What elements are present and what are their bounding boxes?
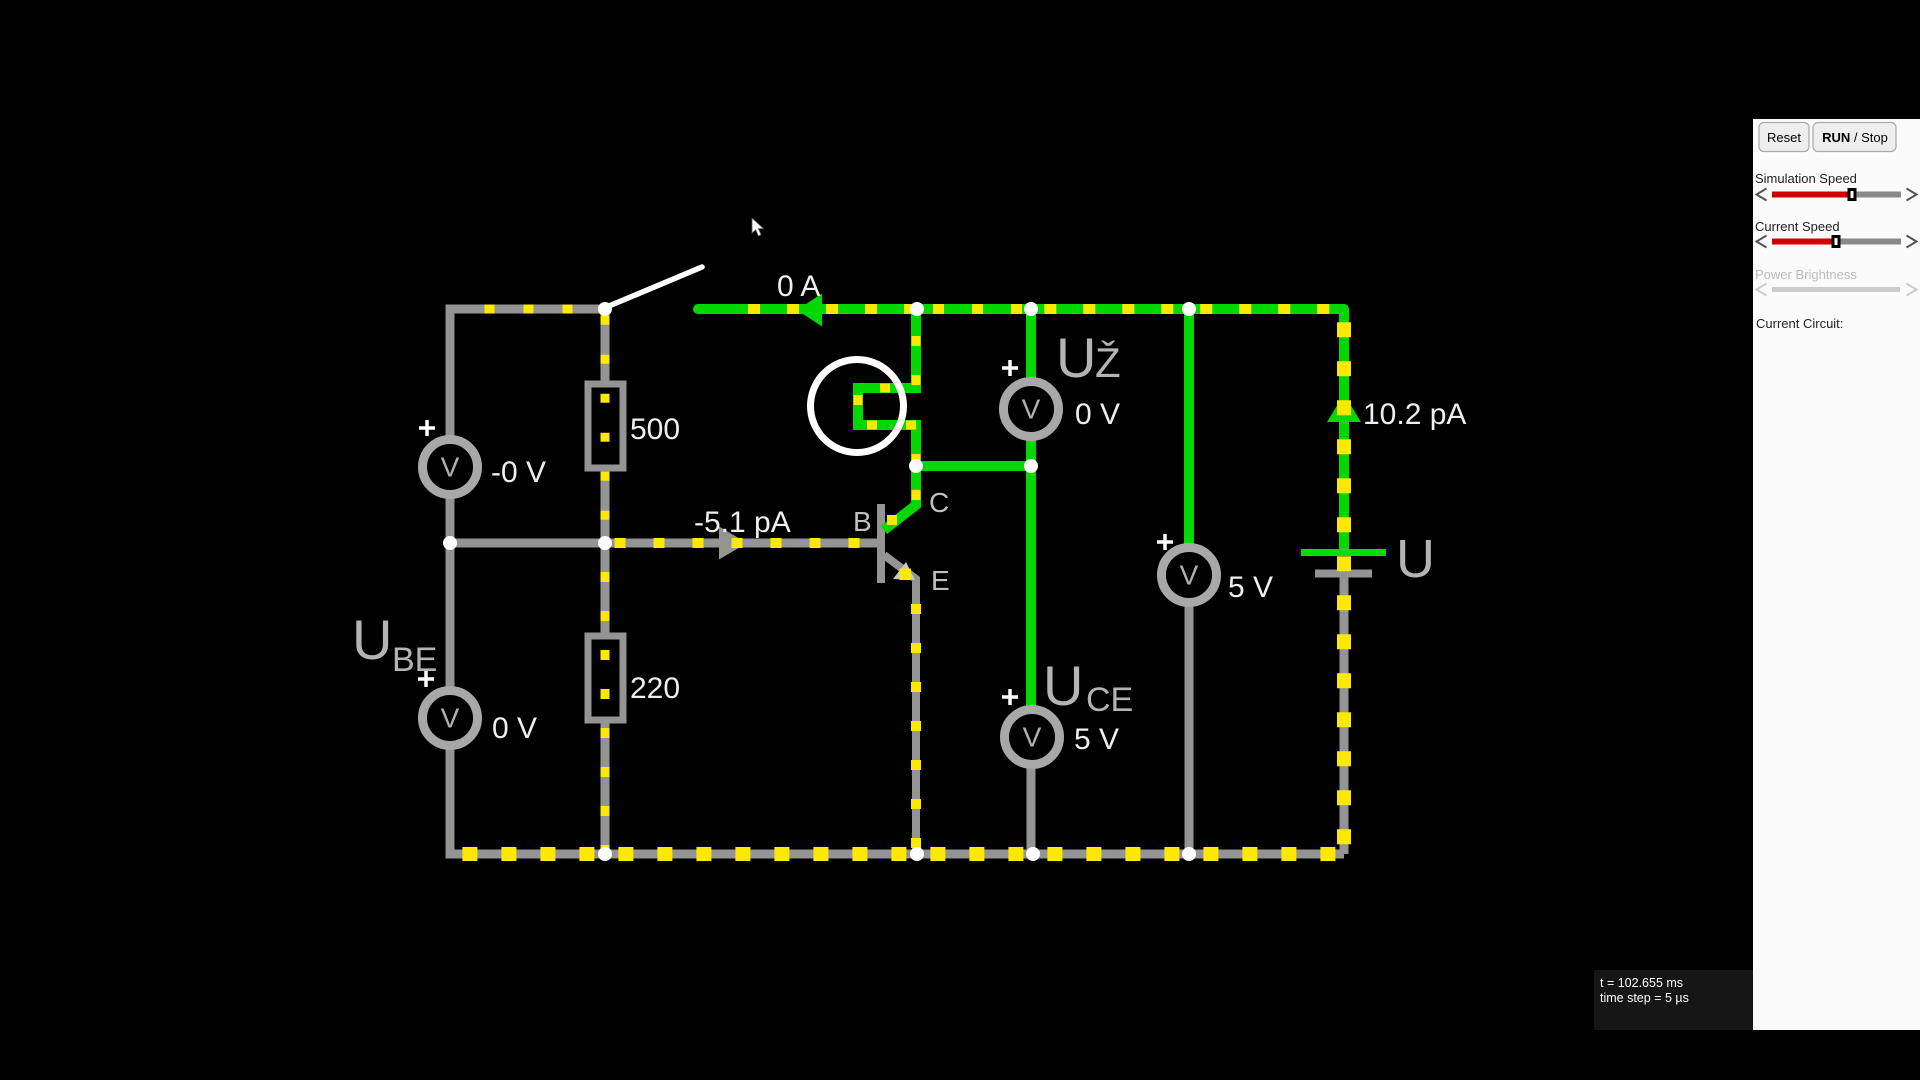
svg-text:CE: CE [1086,681,1133,719]
svg-text:U: U [1396,529,1435,589]
svg-text:C: C [929,487,949,518]
svg-text:0 V: 0 V [492,712,537,745]
svg-text:Current Circuit:: Current Circuit: [1756,316,1843,331]
svg-text:0 A: 0 A [777,270,820,303]
svg-text:Current Speed: Current Speed [1755,219,1840,234]
svg-text:V: V [1023,722,1042,753]
svg-text:RUN / Stop: RUN / Stop [1822,130,1888,145]
svg-text:time step = 5 µs: time step = 5 µs [1600,991,1689,1005]
svg-text:V: V [1180,560,1199,591]
svg-text:BE: BE [392,641,437,679]
svg-text:5 V: 5 V [1228,571,1273,604]
svg-text:U: U [1043,654,1083,717]
svg-text:-0 V: -0 V [491,456,546,489]
svg-text:Reset: Reset [1767,130,1801,145]
svg-text:-5.1 pA: -5.1 pA [694,506,791,539]
svg-text:B: B [853,506,872,537]
svg-text:10.2 pA: 10.2 pA [1363,398,1466,431]
svg-text:500: 500 [630,413,680,446]
svg-text:5 V: 5 V [1074,723,1119,756]
svg-text:Ž: Ž [1095,339,1121,386]
svg-text:Power Brightness: Power Brightness [1755,267,1857,282]
svg-text:V: V [441,452,460,483]
svg-text:E: E [931,565,950,596]
svg-text:0 V: 0 V [1075,398,1120,431]
svg-text:V: V [1022,394,1041,425]
svg-text:t = 102.655 ms: t = 102.655 ms [1600,976,1683,990]
svg-text:U: U [352,608,392,671]
svg-text:U: U [1056,326,1096,389]
svg-text:Simulation Speed: Simulation Speed [1755,171,1857,186]
svg-text:220: 220 [630,672,680,705]
svg-text:V: V [441,703,460,734]
